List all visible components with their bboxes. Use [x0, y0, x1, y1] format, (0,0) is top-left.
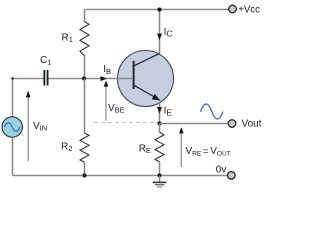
node R2-rail junction: [83, 174, 87, 178]
terminal Vout: [228, 120, 236, 128]
resistor R1: [84, 10, 86, 22]
terminal 0v: [228, 172, 236, 180]
svg-text:IB: IB: [103, 64, 111, 76]
current arrow IB: [101, 76, 107, 81]
voltage arrow VIN: [26, 91, 31, 162]
svg-text:R1: R1: [62, 32, 73, 44]
transistor Q1: [118, 51, 174, 107]
wire input left segment: [13, 78, 44, 80]
svg-text:R2: R2: [61, 142, 72, 154]
wire emitter: [159, 102, 161, 124]
svg-text:IC: IC: [164, 27, 173, 39]
svg-text:IE: IE: [164, 106, 173, 118]
resistor R2: [84, 79, 86, 134]
wire top rail: [85, 9, 229, 11]
ac source VIN: [2, 79, 22, 176]
output sine symbol: [201, 104, 224, 119]
node input corner: [11, 77, 13, 79]
current arrow IE: [157, 107, 162, 114]
voltage arrow VBE: [104, 81, 109, 121]
node collector-rail junction: [158, 8, 162, 12]
current arrow IC: [157, 34, 162, 41]
svg-text:+Vcc: +Vcc: [238, 4, 260, 15]
wire collector: [159, 9, 161, 54]
svg-text:0v: 0v: [216, 164, 227, 175]
svg-text:VRE=VOUT: VRE=VOUT: [186, 146, 231, 158]
node emitter-output junction: [158, 122, 162, 126]
voltage arrow VRE: [179, 127, 184, 167]
svg-text:VIN: VIN: [33, 121, 47, 133]
terminal +Vcc: [229, 5, 237, 13]
svg-text:C1: C1: [40, 55, 51, 67]
dashed line base-emitter level: [94, 122, 160, 124]
wire output: [160, 123, 229, 125]
ground: [153, 176, 167, 187]
wire bottom rail: [13, 175, 228, 177]
wire base: [49, 78, 134, 80]
capacitor C1: [43, 70, 48, 86]
svg-text:Vout: Vout: [242, 119, 262, 130]
svg-text:VBE: VBE: [108, 103, 125, 115]
svg-text:RE: RE: [139, 144, 151, 156]
node base junction: [82, 77, 86, 81]
resistor RE: [159, 124, 161, 133]
node RE-rail junction: [158, 174, 162, 178]
